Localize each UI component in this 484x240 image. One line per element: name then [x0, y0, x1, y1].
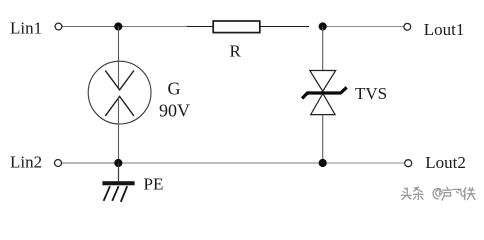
svg-text:90V: 90V: [159, 100, 190, 120]
ground PE (protective earth): [102, 181, 134, 202]
terminal Lin1: [55, 23, 62, 30]
wire node C down to ground: [118, 163, 120, 181]
TVS diode: [302, 71, 347, 115]
wire bottom rail left: Lin2 to node C: [62, 162, 119, 164]
svg-text:Lin2: Lin2: [10, 153, 42, 172]
svg-text:G: G: [168, 79, 181, 99]
wire bottom rail right: node D to Lout2: [322, 162, 405, 164]
resistor R: [213, 21, 260, 33]
terminal Lin2: [55, 160, 62, 167]
watermark 头条@卢飞侠: [401, 187, 475, 200]
wire top rail right: node B to Lout1: [322, 26, 404, 28]
node A (junction top-left): [114, 22, 122, 30]
node D (junction bottom-right): [319, 159, 327, 167]
wire gas tube G down to node C: [118, 96, 120, 163]
wire top rail mid: node A to node B: [118, 26, 309, 28]
terminal Lout2: [405, 160, 412, 167]
gas discharge tube G: [88, 61, 151, 124]
svg-text:TVS: TVS: [355, 84, 387, 103]
wire node A down to gas tube G: [118, 27, 120, 90]
wire resistor R right lead: [260, 26, 309, 28]
svg-text:PE: PE: [144, 175, 164, 194]
svg-text:Lout1: Lout1: [424, 20, 465, 39]
wire node B down to TVS: [322, 27, 324, 71]
svg-text:R: R: [230, 42, 242, 61]
svg-text:Lin1: Lin1: [10, 19, 42, 38]
wire bottom rail mid: node C to node D: [118, 162, 322, 164]
svg-text:Lout2: Lout2: [425, 153, 466, 172]
node B (junction top-right): [319, 22, 327, 30]
terminal Lout1: [404, 23, 411, 30]
wire top rail left: Lin1 to node A: [62, 26, 187, 28]
wire TVS down to node D: [322, 115, 324, 163]
wire resistor R left lead: [187, 26, 213, 28]
node C (junction bottom-left): [114, 159, 122, 167]
